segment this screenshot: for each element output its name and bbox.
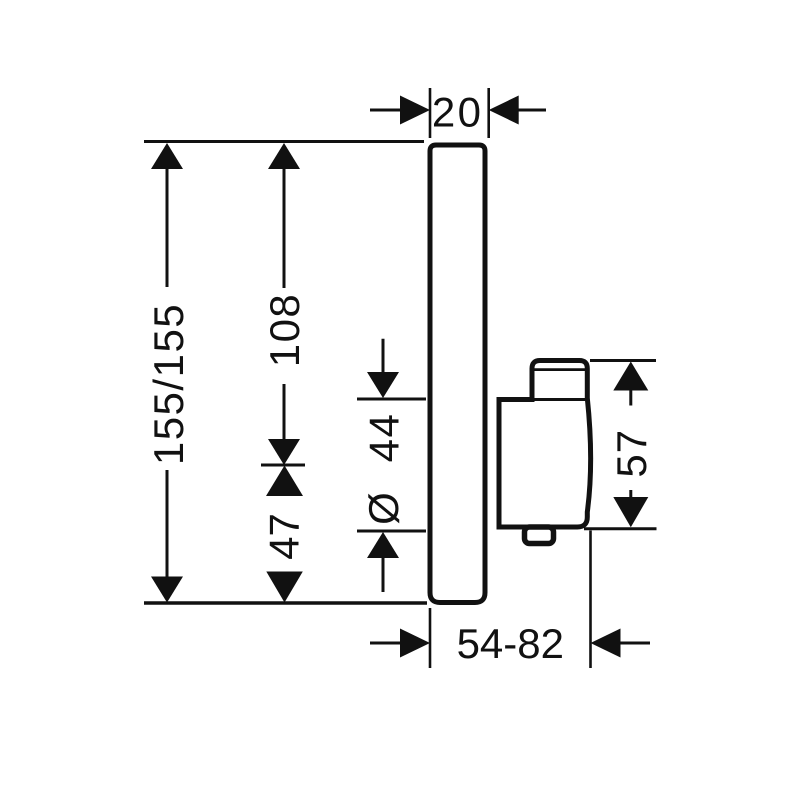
- component bottom tab clip: [525, 527, 554, 544]
- arrowhead down 47 bottom: [266, 572, 303, 603]
- arrowhead up 57 top: [613, 362, 648, 391]
- arrowhead right 20 left: [400, 96, 430, 125]
- arrowhead down 155/155 bottom: [151, 577, 183, 603]
- svg-text:47: 47: [261, 513, 308, 560]
- wire ext line 20 left: [429, 88, 432, 138]
- arrowhead left 20 right: [489, 96, 519, 125]
- arrowhead up 44 bottom: [367, 532, 399, 558]
- svg-text:108: 108: [261, 293, 308, 368]
- wire top reference line: [144, 140, 424, 143]
- wire ext line 54-82 right: [589, 531, 592, 669]
- svg-text:57: 57: [608, 429, 655, 478]
- arrowhead down 108 bottom: [268, 439, 300, 465]
- component escutcheon plate: [430, 145, 485, 603]
- wire dimension line 155/155: [166, 146, 169, 599]
- arrowhead left 54-82 right: [591, 629, 621, 658]
- wire tick 531: [357, 530, 426, 533]
- wire ext line 57 bottom: [584, 527, 657, 530]
- wire dimension line 108: [283, 146, 286, 440]
- wire ext line 57 top: [590, 359, 656, 362]
- arrowhead down 44 top: [367, 372, 399, 398]
- wire knob bottom seam: [534, 398, 586, 401]
- wire dimension line 57: [629, 390, 632, 498]
- arrowhead up 108 top: [268, 143, 300, 169]
- wire ext line 54-82 left: [429, 608, 432, 668]
- wire dimension line 44: [382, 339, 385, 592]
- svg-text:44: 44: [361, 413, 408, 463]
- wire knob seam: [534, 368, 586, 371]
- wire tail 20 left: [370, 109, 401, 112]
- arrowhead up 47 top: [266, 466, 303, 497]
- arrowhead down 57 bottom: [613, 497, 648, 527]
- wire tail 20 right: [517, 109, 546, 112]
- arrowhead up 155/155 top: [151, 143, 183, 169]
- svg-text:Ø: Ø: [360, 492, 407, 525]
- wire tick 399: [357, 398, 426, 401]
- wire tail 54-82 right: [620, 642, 650, 645]
- wire bottom reference line: [144, 601, 427, 605]
- svg-text:20: 20: [432, 89, 484, 136]
- wire tail 54-82 left: [370, 642, 401, 645]
- component valve body with handle knob outline: [499, 361, 591, 528]
- svg-text:155/155: 155/155: [145, 303, 192, 465]
- wire tick 465: [261, 464, 305, 467]
- arrowhead right 54-82 left: [400, 629, 430, 658]
- wire ext line 20 right: [487, 88, 490, 138]
- svg-text:54-82: 54-82: [457, 620, 564, 667]
